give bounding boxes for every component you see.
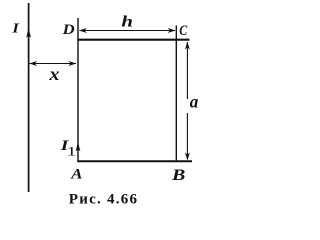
dimension h right arrowhead (168, 28, 176, 33)
svg-text:D: D (62, 21, 76, 37)
dimension x left arrowhead (29, 61, 37, 66)
wire current arrow (26, 28, 31, 37)
svg-text:Рис. 4.66: Рис. 4.66 (69, 192, 138, 208)
svg-text:h: h (121, 13, 133, 31)
dimension x line (30, 63, 77, 65)
svg-text:I: I (11, 21, 20, 37)
dimension x right arrowhead (69, 61, 77, 66)
loop side CB (right side of rectangle, with extension above C) (175, 26, 177, 162)
loop side AB (bottom side of rectangle, extended right for dimension a) (77, 160, 192, 162)
svg-text:A: A (70, 166, 82, 182)
current arrow I1 on side AD (pointing up) (76, 142, 81, 151)
dimension a top arrowhead (185, 42, 190, 50)
svg-text:a: a (190, 91, 199, 112)
dimension h line (80, 30, 176, 32)
dimension h left arrowhead (79, 28, 87, 33)
wire (long straight conductor with current I) (28, 3, 30, 192)
dimension a bottom arrowhead (185, 152, 190, 160)
loop side DC (top side of rectangle, extended right for dimension a) (77, 39, 189, 41)
svg-text:x: x (48, 65, 60, 85)
dimension a line lower segment (186, 113, 188, 160)
dimension a line upper segment (186, 42, 188, 99)
svg-text:1: 1 (67, 144, 77, 159)
svg-text:B: B (171, 166, 185, 184)
loop side DA (left side of rectangle, with extension above D) (77, 18, 79, 162)
svg-text:C: C (179, 22, 188, 39)
